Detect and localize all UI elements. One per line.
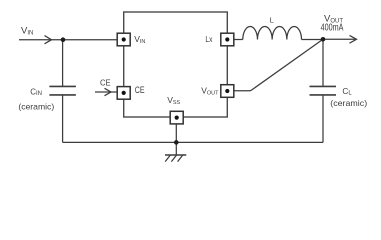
svg-text:(ceramic): (ceramic) [18, 101, 54, 111]
svg-text:CE: CE [135, 85, 145, 95]
svg-text:400mA: 400mA [321, 23, 344, 34]
svg-text:(ceramic): (ceramic) [330, 98, 367, 108]
svg-text:CE: CE [100, 77, 111, 87]
svg-text:L: L [270, 15, 274, 24]
svg-text:Lx: Lx [205, 35, 212, 44]
